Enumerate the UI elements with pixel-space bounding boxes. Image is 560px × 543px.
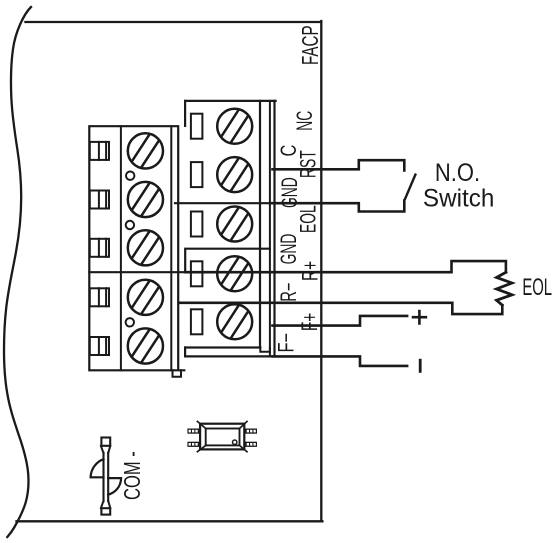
- TB1 wire slot 1: [90, 142, 109, 160]
- jumper J1 left wing: [91, 459, 104, 477]
- jumper J1 top taper: [101, 446, 110, 453]
- U1 pin right-top: [244, 429, 257, 434]
- TB2 screw 4: [217, 256, 252, 291]
- svg-text:GND: GND: [276, 234, 301, 265]
- U1 pin-1 dot: [233, 440, 237, 444]
- TB2 screw 5: [217, 304, 252, 339]
- svg-text:RST: RST: [295, 150, 320, 178]
- U1 pin left-top: [187, 429, 200, 434]
- board top edge: [25, 21, 321, 23]
- TB2 module divider 1: [175, 202, 270, 204]
- TB2 wire slot 4: [191, 261, 203, 286]
- TB2 wire slot 3: [191, 212, 203, 237]
- minus polarity mark (rotated): [419, 360, 422, 371]
- TB2 screw 1: [217, 109, 252, 144]
- plus polarity mark: [413, 311, 426, 323]
- svg-text:EOL: EOL: [295, 205, 320, 233]
- U1 pin right-bottom: [244, 442, 257, 447]
- jumper J1 (COM) top cap: [101, 438, 110, 446]
- svg-text:Switch: Switch: [423, 185, 494, 212]
- svg-text:F−: F−: [274, 333, 299, 353]
- TB2 wire slot 5: [191, 309, 203, 334]
- TB1 bottom-right foot: [173, 370, 182, 377]
- TB2 left edge upper segment: [184, 101, 186, 126]
- TB1 molding hole 1: [126, 172, 134, 180]
- jumper J1 bottom taper: [101, 501, 110, 508]
- TB2 wire slot 1: [191, 114, 203, 139]
- svg-text:GND: GND: [277, 177, 302, 208]
- TB2 module divider 2 with left jog: [185, 249, 270, 273]
- wire R- to EOL resistor bottom: [179, 303, 503, 314]
- svg-text:COM -: COM -: [120, 451, 145, 500]
- wire F-: [273, 356, 408, 366]
- U1 inner die outline: [206, 429, 240, 446]
- jumper J1 bottom cap: [101, 508, 110, 514]
- TB1 screw 5: [128, 328, 163, 363]
- TB1 wire slot 2: [90, 191, 109, 209]
- board torn left edge (wavy): [4, 7, 31, 537]
- svg-text:EOL: EOL: [522, 274, 552, 300]
- TB1 screw 1: [128, 133, 163, 168]
- U1 pin left-bottom: [187, 442, 200, 447]
- TB1 wire slot 4: [90, 288, 109, 306]
- TB2 screw 2: [217, 157, 252, 192]
- TB2 bottom-right foot: [260, 348, 270, 352]
- TB1 molding hole 3: [126, 318, 134, 326]
- TB1 screw 3: [128, 230, 163, 265]
- svg-text:F+: F+: [298, 313, 322, 331]
- TB2 right flange inner line: [269, 101, 271, 357]
- wire R+ to EOL resistor top: [185, 261, 506, 272]
- svg-text:NC: NC: [292, 111, 317, 131]
- TB2 bottom lip: [185, 348, 274, 357]
- TB2 screw 3: [217, 207, 252, 242]
- svg-text:FACP: FACP: [298, 25, 324, 65]
- resistor EOL zigzag: [497, 272, 513, 305]
- svg-text:N.O.: N.O.: [435, 158, 480, 186]
- wire F+: [273, 316, 408, 326]
- N.O. switch lever: [405, 175, 415, 199]
- TB1 right edge inner line: [170, 126, 172, 370]
- wire RST to N.O. switch top contact: [273, 160, 405, 170]
- U1 corner chamfers: [197, 421, 247, 451]
- TB1 molding hole 2: [126, 221, 134, 229]
- TB1 wire slot 3: [90, 239, 109, 257]
- terminal block TB2 (right, 5-pos) top edge: [185, 100, 276, 102]
- TB1 wire slot 5: [90, 337, 109, 355]
- terminal block TB1 (left, 5-pos) body: [89, 126, 184, 370]
- svg-text:R−: R−: [276, 282, 301, 301]
- TB2 screws column right edge: [259, 101, 261, 348]
- optocoupler U1 body: [200, 424, 244, 450]
- board bottom edge: [17, 520, 323, 522]
- TB2 right flange outer line: [273, 101, 275, 357]
- board right edge: [320, 21, 322, 521]
- TB1 screw 2: [128, 182, 163, 217]
- TB1 screw 4: [128, 280, 163, 315]
- TB2 wire slot 2: [191, 162, 203, 187]
- TB1 flange inner line: [120, 126, 122, 370]
- wire EOL to N.O. switch bottom contact: [270, 201, 404, 212]
- TB2 bottom edge: [185, 346, 260, 348]
- svg-text:R+: R+: [299, 261, 323, 281]
- TB1 module divider: [89, 271, 185, 273]
- jumper J1 right wing: [108, 478, 121, 495]
- jumper J1 shaft: [104, 453, 109, 501]
